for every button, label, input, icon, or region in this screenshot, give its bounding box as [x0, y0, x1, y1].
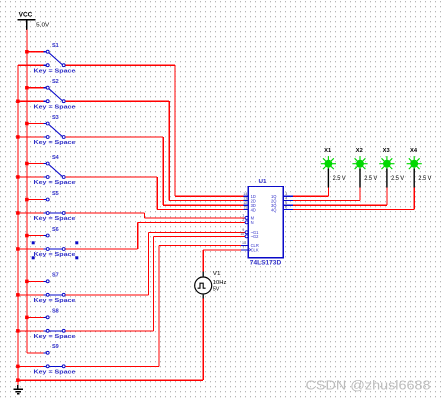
- svg-text:3: 3: [285, 192, 287, 196]
- junction on VCC rail at S1 top: [25, 50, 29, 54]
- switch S9: [43, 344, 65, 368]
- svg-text:Key = Space: Key = Space: [34, 216, 77, 222]
- wire: GND rail to S2 bottom pin: [18, 100, 44, 102]
- svg-text:S1: S1: [52, 43, 59, 49]
- junction on VCC rail at S5 top: [25, 198, 29, 202]
- svg-text:VCC: VCC: [19, 12, 34, 18]
- junction on VCC rail at S7 top: [25, 280, 29, 284]
- wire: U1 output to probe X2: [293, 188, 360, 201]
- svg-text:X4: X4: [410, 148, 417, 154]
- probe X1 (green lamp): [321, 148, 346, 188]
- svg-text:5V: 5V: [213, 287, 220, 293]
- switch S1: [43, 43, 65, 67]
- wire: S3 output to U1: [65, 137, 243, 205]
- switch S8: [43, 309, 65, 333]
- junction on VCC rail at S3 top: [25, 122, 29, 126]
- svg-text:Key = Space: Key = Space: [34, 180, 77, 186]
- pin 1D (left, #14): [243, 192, 256, 199]
- svg-text:13: 13: [243, 196, 247, 200]
- svg-text:S4: S4: [52, 155, 60, 161]
- junction on GND rail at S2 bottom: [16, 100, 20, 104]
- wire: S1 output to U1: [65, 65, 243, 196]
- svg-text:Key = Space: Key = Space: [34, 370, 77, 376]
- VCC power symbol: [18, 12, 50, 30]
- switch S7: [43, 273, 65, 297]
- wire: GND rail to S3 bottom pin: [18, 136, 44, 138]
- svg-text:Key = Space: Key = Space: [34, 68, 77, 74]
- wire: VCC rail to S5 top pin: [27, 199, 44, 201]
- wire: GND rail to S1 bottom pin: [18, 64, 44, 66]
- pin ~G2 (left, #10, active-low bubble): [240, 232, 259, 239]
- wire: U1 output to probe X1: [293, 188, 329, 197]
- junction on VCC rail at S2 top: [25, 86, 29, 90]
- clock source V1 (10Hz 5V): [195, 271, 227, 299]
- pin M (left, #1, active-low bubble): [242, 214, 254, 221]
- selection handles around S6: [32, 241, 79, 259]
- wire: S2 output to U1: [65, 101, 243, 200]
- junction on GND rail at S9 bottom: [16, 365, 20, 369]
- wire: VCC rail vertical: [26, 30, 28, 353]
- switch S3: [43, 115, 65, 139]
- svg-text:Key = Space: Key = Space: [34, 140, 77, 146]
- wire: VCC rail to S6 top pin: [27, 235, 44, 237]
- junction on GND rail at V1 return: [16, 378, 20, 382]
- svg-text:11: 11: [244, 205, 248, 209]
- svg-text:CSDN @zhusl6688: CSDN @zhusl6688: [306, 378, 431, 392]
- wire: S5 output to U1: [65, 213, 245, 218]
- svg-text:S6: S6: [52, 227, 59, 233]
- junction on GND rail at S8 bottom: [16, 329, 20, 333]
- svg-text:14: 14: [243, 192, 247, 196]
- switch S2: [43, 79, 65, 103]
- svg-text:2.5 V: 2.5 V: [364, 176, 377, 182]
- svg-text:6: 6: [285, 205, 287, 209]
- svg-text:5: 5: [285, 201, 287, 205]
- wire: V1 bottom to ground rail: [18, 299, 203, 381]
- wire: GND rail to S8 bottom pin: [18, 330, 44, 332]
- svg-text:10Hz: 10Hz: [213, 280, 227, 286]
- probe X3 (green lamp): [379, 148, 404, 188]
- wire: GND rail to S5 bottom pin: [18, 212, 44, 214]
- junction on GND rail at S3 bottom: [16, 135, 20, 139]
- wire: S9 output to U1: [65, 245, 241, 366]
- switch S6: [43, 227, 65, 251]
- svg-text:4Q: 4Q: [271, 207, 276, 212]
- wire: GND rail to S6 bottom pin: [18, 248, 44, 250]
- svg-text:5.0V: 5.0V: [36, 23, 49, 29]
- wire: S4 output to U1: [65, 177, 243, 210]
- svg-text:4D: 4D: [251, 207, 256, 212]
- svg-text:Key = Space: Key = Space: [34, 252, 77, 258]
- junction on GND rail at S6 bottom: [16, 247, 20, 251]
- svg-text:1: 1: [242, 214, 244, 218]
- wire: S7 output to U1: [65, 232, 245, 294]
- svg-text:Key = Space: Key = Space: [34, 298, 77, 304]
- junction on GND rail at S7 bottom: [16, 293, 20, 297]
- svg-text:10: 10: [240, 232, 244, 236]
- wire: VCC rail to S9 top pin: [27, 352, 44, 354]
- pin 4Q (right, #6): [271, 205, 293, 212]
- probe X2 (green lamp): [352, 148, 377, 188]
- svg-text:Key = Space: Key = Space: [34, 334, 77, 340]
- wire: VCC rail to S4 top pin: [27, 163, 44, 165]
- junction on GND rail at S4 bottom: [16, 175, 20, 179]
- pin N (left, #2, active-low bubble): [242, 218, 253, 225]
- svg-text:X2: X2: [356, 148, 363, 154]
- svg-text:CLK: CLK: [251, 248, 259, 253]
- junction on VCC rail at S6 top: [25, 234, 29, 238]
- pin 1Q (right, #3): [271, 192, 293, 199]
- junction on VCC rail at S4 top: [25, 162, 29, 166]
- pin CLK (left, #7, clock): [241, 245, 259, 252]
- svg-text:2.5 V: 2.5 V: [391, 176, 404, 182]
- wire: VCC rail to S3 top pin: [27, 123, 44, 125]
- svg-text:2: 2: [242, 218, 244, 222]
- svg-text:X1: X1: [324, 148, 331, 154]
- op IC U1 74LS173D body: [248, 187, 283, 258]
- svg-text:Key = Space: Key = Space: [34, 104, 77, 110]
- wire: S8 output to U1: [65, 236, 245, 330]
- svg-text:2.5 V: 2.5 V: [418, 176, 431, 182]
- svg-text:X3: X3: [383, 148, 390, 154]
- wire: GND rail to S9 bottom pin: [18, 365, 44, 367]
- svg-text:7: 7: [242, 245, 244, 249]
- svg-text:~G2: ~G2: [251, 234, 260, 239]
- pin 4D (left, #11): [243, 205, 256, 212]
- wire: GND rail to S7 bottom pin: [18, 294, 44, 296]
- wire: VCC rail to S8 top pin: [27, 316, 44, 318]
- pin ~G1 (left, #9, active-low bubble): [242, 228, 259, 235]
- svg-text:S8: S8: [52, 309, 59, 315]
- ground symbol: [13, 385, 23, 394]
- wire: GND rail vertical: [17, 65, 19, 385]
- svg-text:12: 12: [243, 201, 247, 205]
- wire: GND rail to S4 bottom pin: [18, 176, 44, 178]
- wire: VCC rail to S2 top pin: [27, 87, 44, 89]
- svg-text:S5: S5: [52, 191, 59, 197]
- svg-text:74LS173D: 74LS173D: [250, 260, 282, 267]
- wire: VCC rail to S1 top pin: [27, 51, 44, 53]
- svg-text:15: 15: [242, 241, 246, 245]
- wire: VCC rail to S7 top pin: [27, 280, 44, 282]
- svg-text:V1: V1: [213, 271, 221, 277]
- pin 3D (left, #12): [243, 201, 256, 208]
- junction on GND rail at S5 bottom: [16, 211, 20, 215]
- pin 2D (left, #13): [243, 196, 256, 203]
- svg-text:S7: S7: [52, 273, 59, 279]
- probe X4 (green lamp): [407, 148, 432, 188]
- svg-text:S3: S3: [52, 115, 59, 121]
- wire: U1 output to probe X3: [293, 188, 387, 206]
- svg-text:N: N: [251, 220, 254, 225]
- svg-text:S9: S9: [52, 344, 59, 350]
- pin CLR (left, #15): [241, 241, 259, 248]
- wire: S6 output to U1: [65, 222, 245, 249]
- svg-text:S2: S2: [52, 79, 59, 85]
- junction on VCC rail at S8 top: [25, 316, 29, 320]
- svg-text:2.5 V: 2.5 V: [333, 176, 346, 182]
- pin 3Q (right, #5): [271, 201, 293, 208]
- svg-text:U1: U1: [259, 179, 267, 185]
- wire: U1 output to probe X4: [293, 188, 414, 210]
- switch S5: [43, 191, 65, 215]
- switch S4: [43, 155, 65, 179]
- svg-text:4: 4: [285, 196, 287, 200]
- pin 2Q (right, #4): [271, 196, 293, 203]
- wire: V1 top to U1 CLK: [203, 250, 241, 272]
